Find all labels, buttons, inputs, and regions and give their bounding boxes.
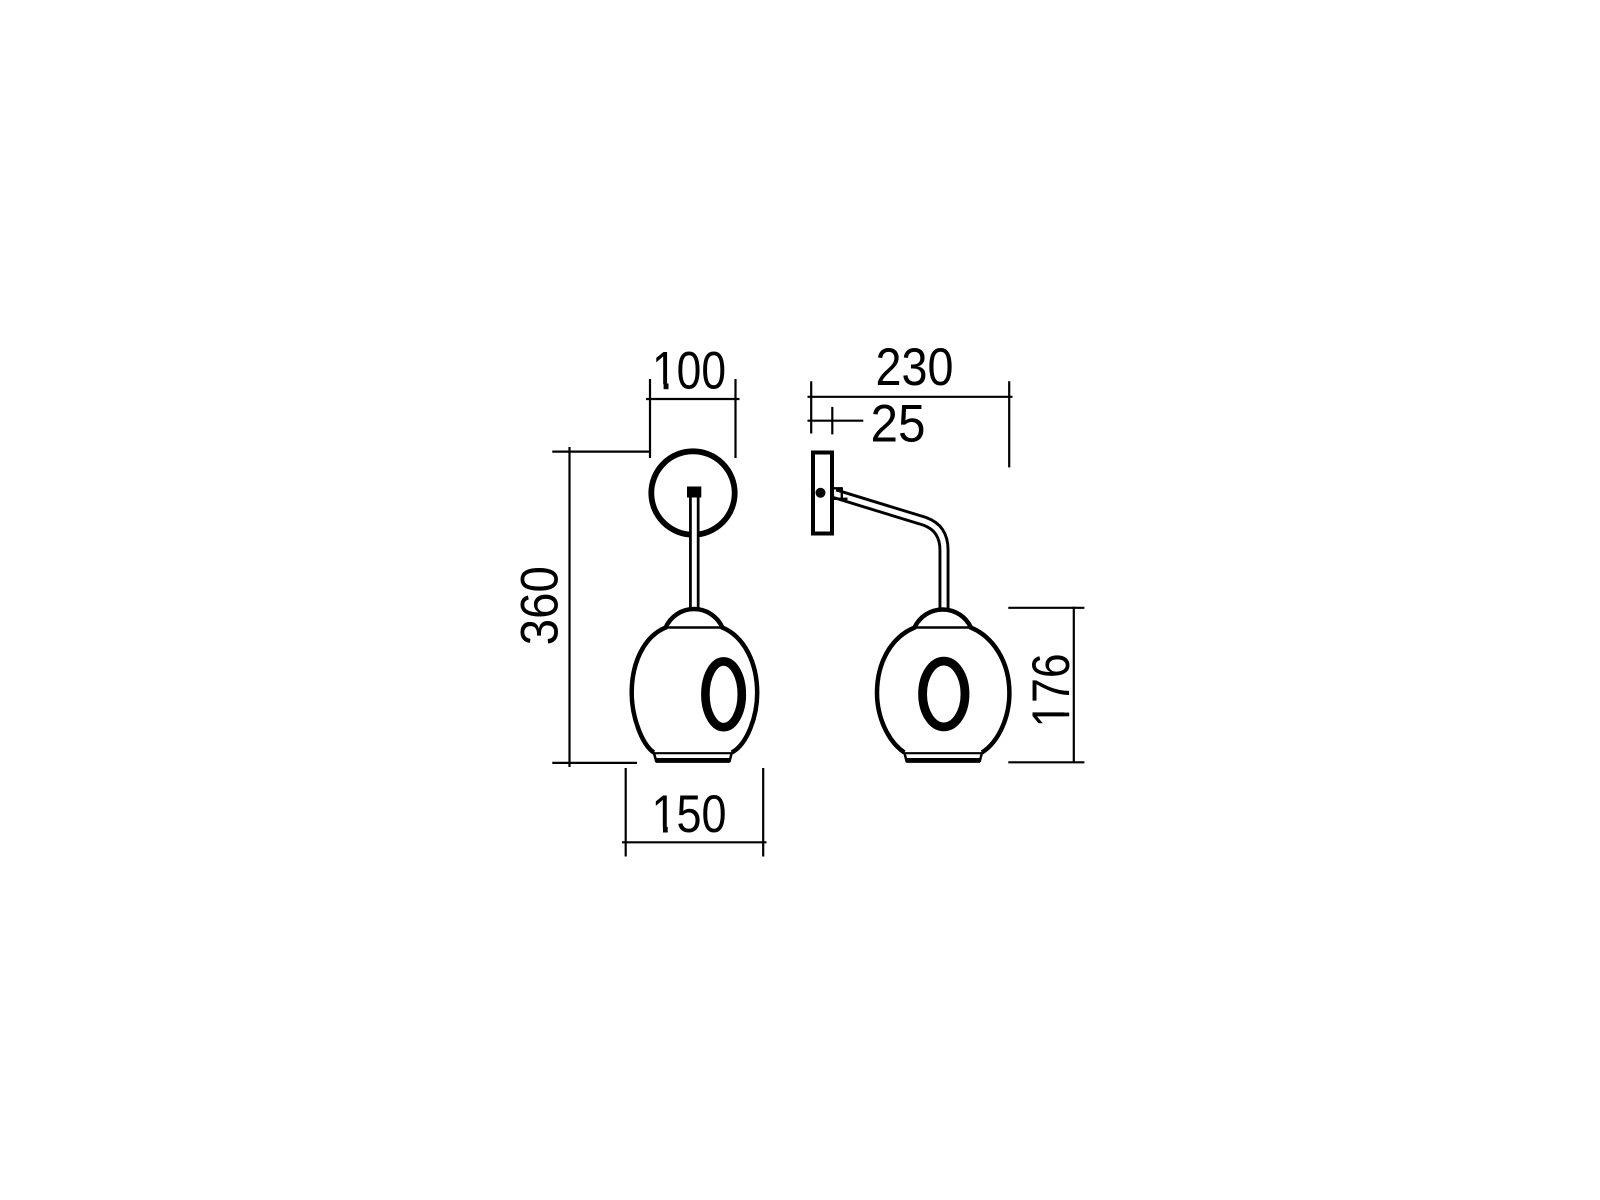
extension line 176 top [1008, 607, 1084, 609]
mask foot serif of 1 in 176 [1064, 703, 1071, 726]
wall plate side [813, 453, 832, 534]
mask foot serif of 1 in 150 [654, 828, 676, 834]
svg-text:360: 360 [511, 566, 570, 645]
dim line 25 [808, 420, 864, 422]
mask foot serif of 1 in 100 [654, 384, 676, 391]
dim line 150 [622, 841, 767, 843]
svg-text:100: 100 [652, 342, 726, 401]
extension line 100 left [649, 379, 651, 458]
shade hole ring side [923, 661, 965, 727]
shade hole ring front [705, 661, 741, 727]
arm tube side [835, 494, 944, 610]
shade rim bottom bar front [655, 758, 732, 763]
extension line 150 left [625, 768, 627, 857]
rim side left side-view [904, 753, 907, 763]
svg-text:150: 150 [652, 785, 727, 844]
shade rim top line front [654, 752, 732, 754]
dim line 230 [808, 396, 1013, 398]
extension line 176 bottom [1008, 761, 1084, 763]
rim side right front [729, 753, 731, 763]
dim line 100 [646, 398, 740, 400]
stem rod front [689, 488, 700, 609]
svg-text:230: 230 [876, 338, 954, 397]
shade neck chord front [665, 626, 723, 629]
extension line 230 right [1008, 381, 1010, 467]
rim side left front [654, 753, 657, 763]
shade rim top line side [904, 752, 982, 754]
rim side right side-view [980, 753, 982, 763]
shade rim bottom bar side [905, 758, 981, 763]
shade outline front [632, 609, 758, 752]
screw dot [816, 488, 826, 498]
wall canopy circle front [651, 451, 734, 534]
extension line 100 right [734, 379, 736, 458]
tick 25 [831, 407, 833, 435]
extension line 360 bottom [552, 762, 637, 764]
rod cap [687, 487, 701, 498]
arm bracket [834, 487, 843, 489]
svg-text:176: 176 [1022, 654, 1081, 728]
extension line 360 top [552, 451, 651, 453]
shade outline side [877, 609, 1009, 752]
svg-text:25: 25 [871, 395, 926, 454]
dim line 176 vertical [1073, 607, 1075, 762]
extension line 150 right [762, 768, 764, 857]
shade neck chord side [914, 626, 971, 629]
extension line 230 left (wall) [810, 381, 812, 433]
dim line 360 vertical [568, 447, 570, 767]
